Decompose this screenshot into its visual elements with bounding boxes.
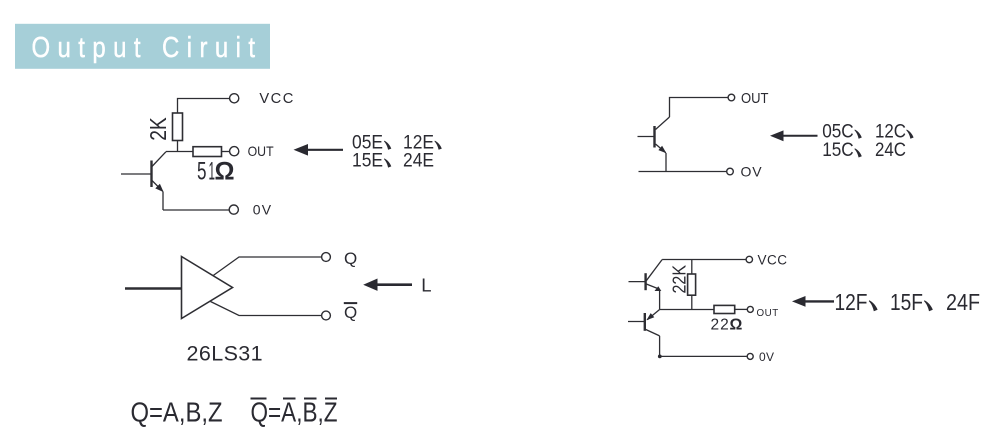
label OV circuit2 [741, 164, 763, 180]
wire Qbar output [211, 302, 322, 316]
arrow L [363, 279, 412, 291]
wire 22K to node [691, 295, 693, 310]
svg-text:Q=A,B,Z: Q=A,B,Z [251, 397, 338, 428]
label Q [344, 249, 357, 268]
terminal OUT circuit1 [230, 147, 239, 156]
svg-text:5: 5 [197, 158, 207, 186]
wire node to 22ohm [660, 309, 714, 311]
value 22 ohm [711, 317, 743, 334]
terminal OUT circuit4 [747, 306, 753, 312]
svg-text:2K: 2K [145, 117, 171, 141]
wire emitter to 0V circuit2 [665, 153, 667, 172]
terminal 0V circuit4 [747, 353, 753, 359]
terminal VCC circuit1 [230, 94, 239, 103]
transistor Q4 collector [646, 330, 660, 336]
transistor Q4 base bar [644, 313, 646, 331]
transistor Q4 base lead [628, 321, 645, 323]
formula Q=A,B,Z [131, 397, 223, 428]
terminal VCC circuit4 [746, 256, 752, 262]
wire emitter to 0V [162, 192, 164, 211]
label 15C 24C [822, 140, 906, 161]
terminal 0V circuit1 [229, 205, 238, 214]
svg-text:Q: Q [344, 249, 357, 268]
label 0V circuit1 [253, 202, 273, 218]
svg-text:22K: 22K [670, 265, 690, 294]
label 05E 12E [352, 133, 442, 154]
svg-text:L: L [421, 274, 431, 295]
svg-text:OUT: OUT [248, 144, 274, 159]
input line 26LS31 [125, 287, 182, 289]
wire Q output [213, 257, 322, 276]
svg-text:22: 22 [711, 317, 730, 334]
label 05C 12C [822, 121, 913, 142]
title Output Ciruit [15, 24, 270, 69]
junction dot 0V [658, 355, 662, 359]
svg-text:OUT: OUT [741, 91, 769, 107]
arrow circuit4 [792, 296, 834, 307]
transistor Q1 base bar [150, 161, 152, 188]
wire 51ohm to OUT [222, 151, 230, 153]
label 0V circuit4 [759, 350, 774, 364]
label OUT circuit1 [248, 144, 274, 159]
svg-text:12F: 12F [835, 289, 868, 315]
wire node to 51ohm [166, 151, 193, 153]
terminal OUT circuit2 [728, 94, 735, 101]
svg-text:26LS31: 26LS31 [187, 342, 264, 366]
transistor Q2 base lead [638, 136, 655, 138]
terminal 0V circuit2 [727, 168, 734, 175]
transistor Q3 base lead [629, 281, 646, 283]
resistor 22K [688, 274, 696, 295]
buffer 26LS31 triangle [182, 257, 233, 319]
svg-text:15C: 15C [822, 140, 854, 161]
transistor Q3 emitter [646, 284, 661, 291]
wire Q3 emitter to node [659, 291, 661, 310]
label 12F 15F 24F [835, 289, 981, 315]
svg-text:0V: 0V [253, 202, 273, 218]
label OUT circuit2 [741, 91, 769, 107]
transistor Q2 collector [656, 117, 670, 130]
arrow circuit2 [770, 130, 818, 141]
label Qbar [344, 303, 357, 322]
value 22K [670, 265, 690, 294]
value 51 ohm [197, 158, 235, 186]
formula Qbar=Abar,Bbar,Zbar [251, 397, 338, 428]
wire resistor to node [177, 141, 179, 152]
svg-text:24C: 24C [875, 140, 906, 161]
svg-text:Output Ciruit: Output Ciruit [32, 32, 263, 64]
transistor Q1 base lead [121, 173, 152, 175]
wire VCC circuit4 [662, 259, 746, 261]
wire 22ohm to OUT [735, 308, 747, 310]
transistor Q2 base bar [653, 126, 655, 148]
label VCC circuit1 [259, 91, 295, 107]
label L [421, 274, 431, 295]
svg-text:15E: 15E [352, 150, 383, 171]
wire OUT top-right [670, 98, 729, 118]
svg-text:OV: OV [741, 164, 763, 180]
wire VCC to 22K [691, 260, 693, 275]
wire 0V circuit2 [639, 171, 727, 173]
resistor 2K [173, 113, 183, 141]
svg-text:0V: 0V [759, 350, 774, 364]
wire 0V circuit4 [660, 355, 747, 357]
wire 0V circuit1 [163, 209, 230, 211]
svg-text:OUT: OUT [757, 308, 779, 319]
value 2K [145, 117, 171, 141]
svg-text:24F: 24F [946, 289, 980, 315]
wire VCC top-left [178, 99, 231, 114]
label 26LS31 [187, 342, 264, 366]
svg-text:Q=A,B,Z: Q=A,B,Z [131, 397, 223, 428]
transistor Q2 emitter [656, 144, 667, 153]
svg-text:15F: 15F [890, 289, 923, 315]
terminal Qbar [322, 311, 331, 320]
svg-text:VCC: VCC [259, 91, 295, 107]
svg-text:24E: 24E [403, 150, 434, 171]
arrow circuit1 [294, 144, 344, 156]
svg-text:Ω: Ω [215, 158, 235, 186]
terminal Q [322, 253, 331, 262]
resistor 51ohm [193, 147, 222, 157]
transistor Q1 emitter [152, 180, 164, 192]
transistor Q4 emitter [646, 310, 659, 321]
svg-text:Ω: Ω [730, 317, 743, 334]
svg-text:VCC: VCC [758, 253, 788, 268]
label 15E 24E [352, 150, 434, 171]
label OUT circuit4 [757, 308, 779, 319]
svg-text:Q: Q [344, 303, 357, 322]
resistor 22ohm [714, 305, 735, 313]
label VCC circuit4 [758, 253, 788, 268]
transistor Q3 base bar [644, 273, 646, 290]
transistor Q3 collector [646, 260, 662, 281]
wire Q4 collector to 0V [659, 336, 661, 357]
transistor Q1 collector [152, 152, 167, 167]
